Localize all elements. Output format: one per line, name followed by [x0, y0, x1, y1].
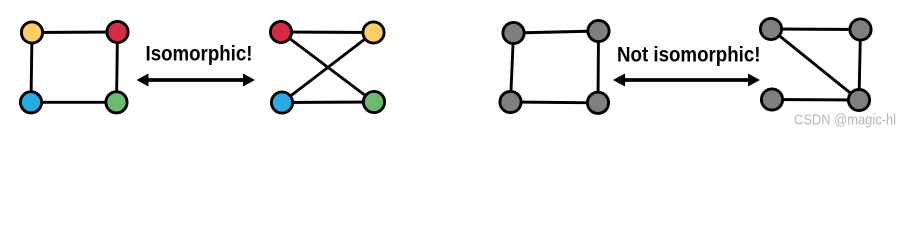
arrow double-headed left — [137, 74, 256, 87]
node G2 green — [363, 91, 384, 112]
node G3 br gray — [587, 92, 608, 113]
graph G3 (gray square) — [511, 31, 599, 103]
node G4 tl gray — [760, 18, 781, 39]
wire G1 bottom edge green-blue — [31, 101, 117, 104]
wire G3 left edge — [511, 33, 514, 102]
node G4 tr gray — [850, 19, 871, 40]
svg-text:Isomorphic!: Isomorphic! — [146, 43, 253, 66]
wire G3 bottom edge — [511, 101, 599, 105]
wire G2 top edge red-yellow — [281, 31, 374, 34]
wire G4 diagonal — [771, 29, 859, 100]
wire G2 diagonal yellow-blue — [282, 33, 374, 103]
wire G2 bottom edge blue-green — [282, 101, 374, 104]
node G4 bl gray — [761, 89, 782, 110]
svg-text:CSDN @magic-hl: CSDN @magic-hl — [794, 112, 896, 128]
wire G4 bottom edge — [772, 98, 859, 101]
wire G1 top edge yellow-red — [32, 31, 118, 34]
arrow double-headed right — [613, 74, 760, 87]
node G3 bl gray — [500, 91, 521, 112]
wire G1 right edge red-green — [117, 32, 118, 102]
node G1 blue — [20, 92, 41, 113]
graph G2 (colored crossed cycle) — [281, 32, 374, 103]
graph G4 (gray triangle with pendant edge) — [771, 29, 861, 100]
node G3 tr gray — [588, 20, 609, 41]
node G2 blue — [271, 92, 292, 113]
wire G2 diagonal green-red — [281, 32, 374, 102]
node G1 yellow — [21, 22, 42, 43]
node G4 br gray — [848, 89, 869, 110]
node G2 yellow — [363, 22, 384, 43]
svg-text:Not isomorphic!: Not isomorphic! — [617, 44, 761, 67]
node G1 red — [107, 21, 128, 42]
graph G1 (colored square) — [31, 32, 118, 102]
node G2 red — [270, 21, 291, 42]
wire G4 right edge — [859, 30, 861, 101]
wire G1 left edge blue-yellow — [31, 33, 32, 103]
wire G4 top edge — [771, 28, 861, 31]
wire G3 top edge — [514, 31, 599, 33]
node G1 green — [106, 92, 127, 113]
wire G3 right edge — [597, 31, 600, 103]
node G3 tl gray — [503, 22, 524, 43]
